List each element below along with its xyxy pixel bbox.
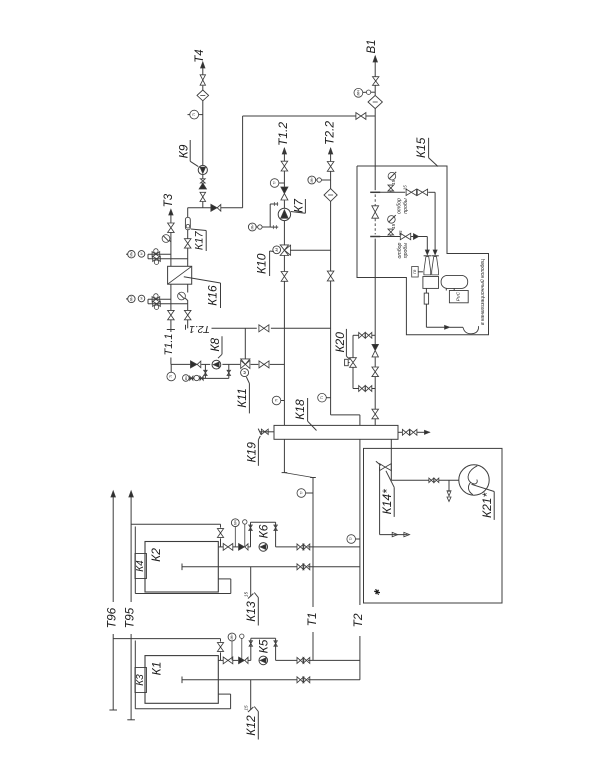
thermometer TI on T2 xyxy=(347,535,356,544)
arrow T4 xyxy=(201,62,205,68)
sample cooler box xyxy=(423,277,439,289)
bypass around K7 xyxy=(269,204,271,227)
thermometer TI above collector xyxy=(272,396,281,405)
manometer hookup above K16 xyxy=(148,253,171,255)
feed pipe from T96 to tank K1 xyxy=(113,638,220,640)
header start tick T2.1 xyxy=(185,325,187,330)
expansion tank K21* xyxy=(459,465,489,495)
line break tick T1.1 xyxy=(167,329,175,331)
valves K1 line to T1 xyxy=(297,657,300,663)
thermometer TI on T4 xyxy=(190,110,199,119)
feed stub valve K2 xyxy=(220,524,222,527)
safety valve K14* xyxy=(380,464,386,471)
pipe K10 to T2.2 xyxy=(290,249,331,251)
svg-text:К1: К1 xyxy=(150,662,164,676)
feed pipe from T95 to tank K2 xyxy=(131,523,220,525)
arrow T96 xyxy=(111,491,115,497)
svg-text:К21*: К21* xyxy=(480,493,494,518)
collector drain with valves xyxy=(398,431,402,433)
valve on T4 lower xyxy=(200,192,206,197)
svg-text:К17: К17 xyxy=(194,230,206,250)
svg-text:Т96: Т96 xyxy=(105,607,119,628)
pressure gauge on K1 line xyxy=(228,633,236,641)
svg-text:МН: МН xyxy=(230,634,234,640)
svg-text:15: 15 xyxy=(244,592,249,598)
riser to cold water line xyxy=(242,116,244,208)
check valve above K7 xyxy=(281,187,288,194)
pipe from K17 to cold-water tie line xyxy=(188,207,211,209)
sample outlet 1 xyxy=(390,191,392,192)
drain K13 xyxy=(250,567,252,597)
valve on T2.1 line xyxy=(184,310,191,315)
thermometer TI on T2.2 lower xyxy=(318,393,327,402)
svg-text:МН: МН xyxy=(129,296,133,302)
svg-text:Т4: Т4 xyxy=(194,49,206,62)
dip pipe K1 to T2 xyxy=(182,679,297,681)
drip pan K1 xyxy=(134,641,136,709)
pipe T1 riser xyxy=(312,478,314,608)
svg-text:К9: К9 xyxy=(176,144,190,158)
svg-text:отбор: отбор xyxy=(397,198,403,214)
plate K3 xyxy=(135,668,147,693)
valves on K1 dip pipe xyxy=(297,677,300,683)
arrows into sample coolers xyxy=(425,250,429,255)
svg-text:15: 15 xyxy=(402,185,407,190)
pressure gauge PI on B1 xyxy=(354,88,363,97)
strainer (diamond) on T4 xyxy=(197,90,209,101)
svg-text:К4: К4 xyxy=(135,560,146,572)
valve on T2.2 xyxy=(327,162,334,167)
svg-text:ТІ: ТІ xyxy=(349,537,353,540)
pump K6 with bypass xyxy=(250,522,252,547)
svg-text:В1: В1 xyxy=(366,39,378,53)
sampling tee 1 xyxy=(370,191,380,193)
check valve on tie line xyxy=(211,204,217,211)
svg-text:К13: К13 xyxy=(244,601,258,622)
drain trap xyxy=(424,293,428,304)
pipe to pump K8 xyxy=(171,363,190,365)
svg-text:ГВ: ГВ xyxy=(413,269,417,274)
heat exchanger K16 xyxy=(168,266,192,284)
check valve K2 line xyxy=(239,544,245,551)
svg-text:Т2: Т2 xyxy=(351,613,365,627)
arrow T3 xyxy=(169,209,173,215)
union below pump K9 xyxy=(200,179,205,181)
thermometer pocket on T3 xyxy=(162,235,170,243)
svg-text:Т1.1: Т1.1 xyxy=(163,333,175,355)
svg-text:К2: К2 xyxy=(149,548,163,562)
pipe K16 outlet right xyxy=(187,284,189,292)
svg-text:МН: МН xyxy=(129,251,133,257)
valves on K2 dip pipe xyxy=(297,564,300,570)
svg-text:Т1: Т1 xyxy=(305,612,319,626)
manometer hookup below K16 xyxy=(148,298,171,300)
svg-text:К10: К10 xyxy=(254,253,268,274)
pump K9 xyxy=(198,165,207,174)
svg-text:МН: МН xyxy=(310,177,314,183)
pipe T96 xyxy=(112,497,114,602)
end tick T96 xyxy=(109,709,117,711)
check valve on make-up xyxy=(372,344,378,350)
pressure gauges at K16 outlet xyxy=(128,295,135,302)
bypass K20 upper branch xyxy=(353,334,359,336)
svg-text:ТІ: ТІ xyxy=(169,375,173,378)
pressure gauge PI on T2.2 xyxy=(308,176,316,184)
tank K2 outlet pipe xyxy=(218,546,223,548)
thermometer TI at T1.1 corner xyxy=(167,372,176,381)
svg-text:Т2.2: Т2.2 xyxy=(322,121,336,145)
pipe break jog to T1 xyxy=(283,439,285,472)
svg-text:К20: К20 xyxy=(333,332,347,353)
svg-text:К3: К3 xyxy=(135,674,146,686)
svg-text:15: 15 xyxy=(391,223,396,229)
svg-text:К8: К8 xyxy=(208,338,222,352)
valve on B1 inside K15 xyxy=(372,206,379,212)
check valve K1 line xyxy=(239,657,245,664)
svg-text:К6: К6 xyxy=(257,524,271,538)
dip pipe K2 to T2 xyxy=(182,566,297,568)
svg-text:ТІ: ТІ xyxy=(320,396,324,399)
valve at tank K2 outlet xyxy=(223,544,228,551)
pipe from collector to safety valve K14 xyxy=(390,439,392,480)
expansion module boundary xyxy=(364,448,503,603)
sample outlet 2 xyxy=(390,235,392,236)
valve on tie line xyxy=(356,113,361,120)
instrument box RiS xyxy=(449,291,468,303)
pipe T95 xyxy=(130,497,132,602)
pipe T4 hot water supply xyxy=(202,63,204,75)
arrow B1 xyxy=(373,56,377,62)
pump K8 xyxy=(212,360,221,369)
sample funnels xyxy=(424,257,431,275)
svg-text:Т2.1: Т2.1 xyxy=(189,323,210,335)
three-way valve K11 xyxy=(241,360,246,368)
drain K12 xyxy=(250,680,252,710)
pressure gauge PI at K7 xyxy=(248,223,256,231)
svg-text:Т95: Т95 xyxy=(123,607,137,628)
pipe T1.1 down to pump line xyxy=(170,358,172,365)
make-up pipe from K15 xyxy=(374,278,376,345)
solenoid valve K20 xyxy=(350,358,357,363)
valve on T2.1 header xyxy=(259,325,264,332)
valve on T1.2 xyxy=(281,161,288,166)
svg-text:15: 15 xyxy=(244,705,249,711)
valve below K17 xyxy=(184,239,191,244)
drain stub with arrow xyxy=(448,480,450,492)
cold water tie line y=116 xyxy=(243,115,356,117)
valve on T1.1 line xyxy=(168,310,175,315)
tank K1 xyxy=(145,656,218,704)
check valve before K8 xyxy=(191,361,197,368)
valve on B1 xyxy=(373,77,379,81)
svg-text:К19: К19 xyxy=(244,442,258,463)
svg-text:МН: МН xyxy=(250,224,254,230)
valves K2 line to T1 xyxy=(297,544,300,550)
svg-text:К15: К15 xyxy=(414,137,428,158)
small gauge box xyxy=(412,267,419,278)
pressure gauges at K16 inlet xyxy=(128,251,135,258)
pipe K16 outlet left xyxy=(170,284,172,310)
strainer (diamond) on B1 xyxy=(368,95,382,108)
three-way mixing valve K10 xyxy=(280,245,288,250)
pump K7 xyxy=(278,208,290,220)
svg-text:ТІ: ТІ xyxy=(192,113,196,116)
bypass K20 left leg xyxy=(352,335,354,357)
svg-text:пробы: пробы xyxy=(403,243,409,259)
drip pan K2 xyxy=(134,527,136,594)
drain pipe to sewer xyxy=(425,304,427,327)
tank K1 outlet pipe xyxy=(218,659,223,661)
svg-text:К12: К12 xyxy=(244,715,258,736)
collector K18 xyxy=(274,425,398,439)
svg-text:ТІ: ТІ xyxy=(273,181,277,184)
valve at tank K1 outlet xyxy=(223,657,228,664)
svg-text:15: 15 xyxy=(398,230,403,235)
svg-text:К11: К11 xyxy=(235,388,249,408)
svg-text:К5: К5 xyxy=(257,639,271,653)
pipe T3 to heat exchanger xyxy=(170,215,172,223)
valve before collector xyxy=(372,409,379,414)
sampling tee 2 xyxy=(370,236,380,238)
svg-text:пробы: пробы xyxy=(403,198,409,214)
drain from safety valve xyxy=(379,467,381,534)
pipe from K16 to K17 xyxy=(187,248,189,266)
pipe B1 cold water inlet xyxy=(374,56,376,77)
svg-text:К16: К16 xyxy=(206,285,220,306)
pipe B1 inside K15 xyxy=(374,166,376,190)
thermometer pocket below K16 xyxy=(178,292,186,300)
tank K2 xyxy=(145,542,218,593)
drain cock K19 on collector xyxy=(260,431,274,433)
sample vessel xyxy=(441,275,468,288)
svg-text:Т1.2: Т1.2 xyxy=(276,122,290,146)
svg-text:ТІ: ТІ xyxy=(275,399,279,402)
svg-text:К7: К7 xyxy=(291,198,305,213)
svg-text:МН: МН xyxy=(233,520,237,526)
valve on T3 xyxy=(168,223,175,228)
pressure gauge on K2 line xyxy=(231,519,239,527)
svg-text:К18: К18 xyxy=(293,399,307,420)
check valve on T4 xyxy=(199,183,206,189)
pump K5 with bypass xyxy=(250,638,252,660)
sampling module boundary K15 xyxy=(357,166,489,335)
union on tank pipe xyxy=(429,478,431,482)
riser K11 to T2.1 header xyxy=(244,328,246,359)
svg-text:Т3: Т3 xyxy=(163,193,175,207)
pipe T2.1 header xyxy=(212,327,257,329)
pipe to expansion tank K21* xyxy=(391,479,429,481)
arrow T1.2 xyxy=(282,148,286,154)
svg-text:ТІ: ТІ xyxy=(299,491,303,494)
valve on make-up xyxy=(372,367,379,372)
flow regulator K17 xyxy=(185,217,190,230)
thermometer TI on T1 xyxy=(297,489,306,498)
valve after K11 xyxy=(259,361,264,368)
strainer (diamond) on T2.2 xyxy=(324,189,337,202)
svg-text:РиС: РиС xyxy=(455,291,461,301)
valve below K10 xyxy=(281,272,288,277)
sampling branch 1 xyxy=(375,191,405,193)
end tick T95 xyxy=(127,719,135,721)
pressure gauge manifold under K8 xyxy=(204,364,206,378)
elbow T2.2 to collector xyxy=(331,414,360,416)
valve on T2.2 lower xyxy=(327,271,334,276)
svg-text:отбор: отбор xyxy=(397,242,403,258)
pipe T2.2 xyxy=(330,148,332,161)
arrow T2.2 xyxy=(329,148,333,154)
svg-text:МН: МН xyxy=(356,90,360,96)
valve on T4 xyxy=(200,75,205,80)
pipe T1.2 xyxy=(283,148,285,161)
sampling branch 2 xyxy=(375,236,400,238)
svg-text:в канализационный колодец: в канализационный колодец xyxy=(479,259,486,325)
arrow T95 xyxy=(129,491,133,497)
pipe T2 riser xyxy=(359,439,361,605)
thermometer TI on T1.2 xyxy=(270,179,279,188)
feed stub valve K1 xyxy=(220,639,222,642)
plate K4 xyxy=(135,554,147,579)
svg-text:К14*: К14* xyxy=(380,489,394,514)
bypass K20 lower branch xyxy=(353,388,359,390)
